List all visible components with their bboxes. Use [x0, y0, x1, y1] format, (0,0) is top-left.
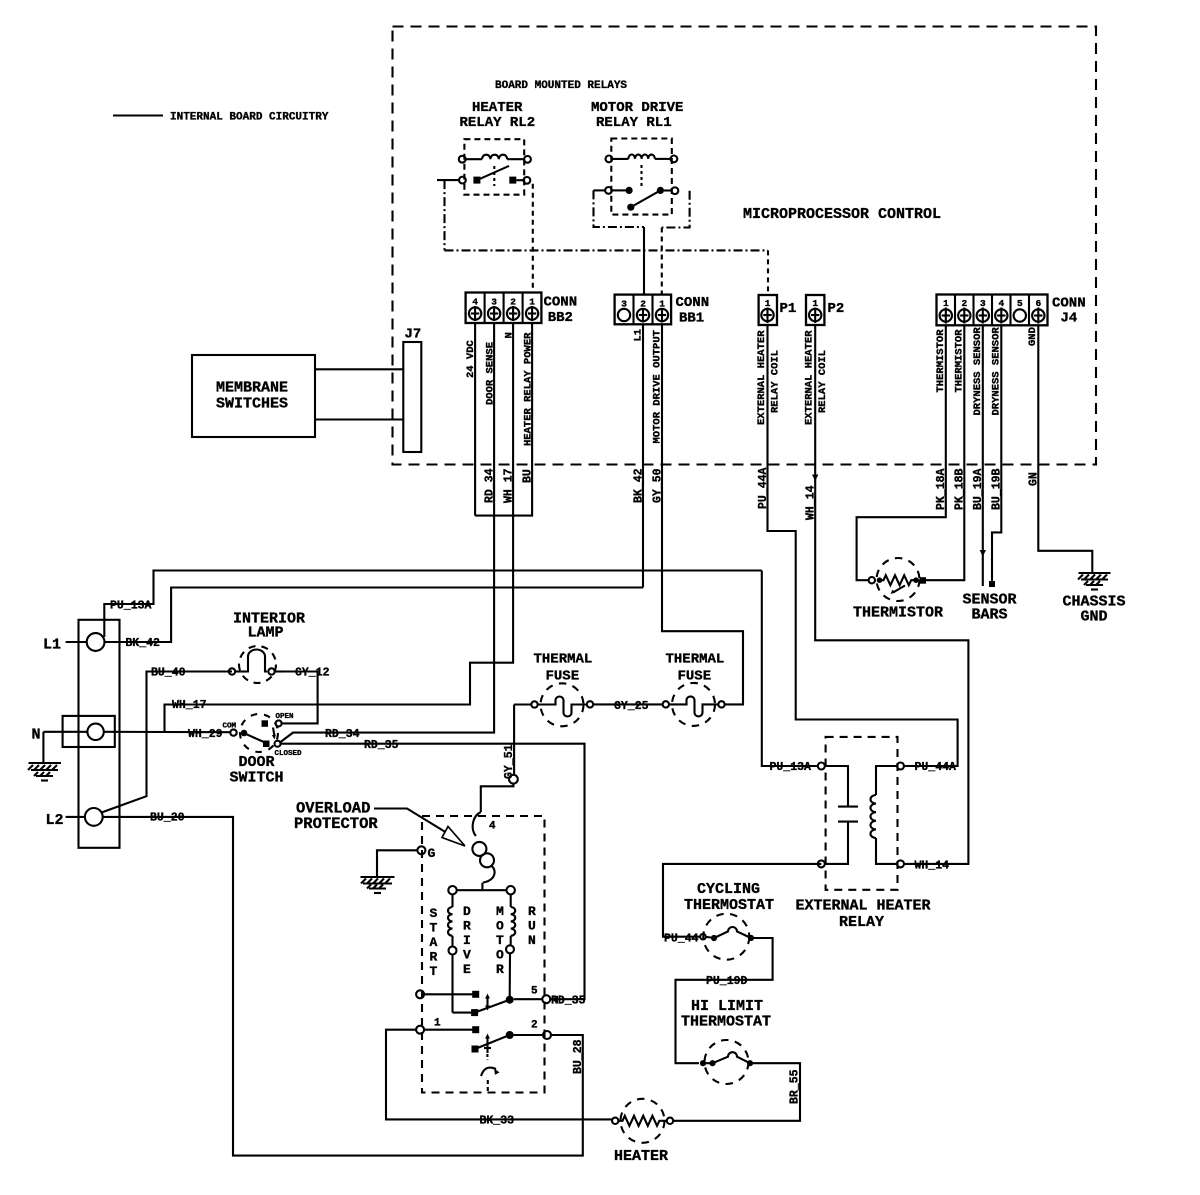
- svg-text:CLOSED: CLOSED: [275, 750, 303, 758]
- svg-text:5: 5: [1017, 298, 1023, 309]
- door switch OPEN contact: [262, 720, 269, 727]
- wire PU_13A vertical to relay: [762, 571, 818, 767]
- svg-text:DOOR: DOOR: [239, 754, 275, 771]
- wire N to door switch COM (WH_29): [104, 731, 230, 734]
- svg-text:PU_19D: PU_19D: [706, 975, 748, 988]
- hi limit thermostat: [700, 1040, 753, 1084]
- svg-text:A: A: [430, 935, 438, 950]
- svg-text:N: N: [32, 727, 41, 744]
- relay RL2: [437, 139, 531, 195]
- svg-text:PU_44A: PU_44A: [915, 761, 957, 774]
- svg-text:FUSE: FUSE: [546, 669, 580, 685]
- svg-text:BOARD MOUNTED RELAYS: BOARD MOUNTED RELAYS: [495, 80, 627, 92]
- svg-text:6: 6: [1036, 298, 1042, 309]
- svg-text:GY_25: GY_25: [614, 700, 649, 713]
- svg-text:BU_19B: BU_19B: [991, 468, 1004, 510]
- terminal L2: [46, 808, 103, 829]
- svg-text:1: 1: [765, 298, 771, 309]
- motor centrifugal switch pin 5: [416, 986, 550, 1017]
- svg-text:RELAY RL2: RELAY RL2: [460, 115, 536, 131]
- svg-text:GND: GND: [1027, 327, 1039, 346]
- svg-text:CONN: CONN: [544, 295, 578, 311]
- wire PU_19D cycling to hi-limit: [676, 938, 773, 1063]
- wire P1 to external heater relay PU_44A: [768, 325, 958, 766]
- svg-text:FUSE: FUSE: [678, 669, 712, 685]
- svg-text:WH_14: WH_14: [915, 860, 950, 873]
- wire 24VDC BB2 pin4 down: [474, 323, 476, 516]
- svg-text:1: 1: [529, 297, 535, 308]
- wire BK_42 from L1: [105, 588, 644, 643]
- wire membrane to J7 top: [315, 368, 403, 370]
- wire BU_20 from L2 to motor pin2: [103, 817, 583, 1156]
- heater: [612, 1099, 673, 1143]
- svg-text:SWITCH: SWITCH: [230, 770, 284, 787]
- svg-text:MICROPROCESSOR CONTROL: MICROPROCESSOR CONTROL: [743, 206, 941, 223]
- svg-text:PU_44: PU_44: [664, 933, 699, 946]
- overload protector label and pointer: [294, 800, 465, 847]
- svg-text:2: 2: [531, 1020, 538, 1032]
- overload protector device: [472, 775, 517, 890]
- svg-text:CONN: CONN: [676, 295, 710, 311]
- connector CONN J4: [937, 295, 1048, 326]
- svg-text:4: 4: [999, 298, 1005, 309]
- svg-text:PU_13A: PU_13A: [770, 761, 812, 774]
- svg-text:P1: P1: [780, 301, 797, 317]
- svg-text:BU_40: BU_40: [151, 667, 186, 680]
- svg-text:O: O: [496, 948, 504, 963]
- svg-text:BK_42: BK_42: [125, 637, 160, 650]
- svg-text:RD_35: RD_35: [364, 739, 399, 752]
- svg-text:G: G: [428, 846, 436, 861]
- svg-text:THERMAL: THERMAL: [666, 652, 725, 668]
- connector CONN BB2: [466, 293, 542, 324]
- external heater relay contact: [825, 766, 848, 807]
- wire BK_42 BB1 pin2 down: [642, 324, 644, 587]
- svg-text:U: U: [528, 919, 536, 934]
- svg-text:BK_33: BK_33: [480, 1115, 515, 1128]
- internal board dash-dot bus line: [445, 249, 769, 251]
- external heater relay coil: [876, 766, 897, 795]
- motor start winding: [448, 894, 472, 1012]
- wire BU_19A J4 pin3 sensor bar: [982, 325, 984, 586]
- svg-text:BB1: BB1: [679, 311, 704, 327]
- svg-text:BU_28: BU_28: [572, 1039, 585, 1074]
- svg-text:PK_18A: PK_18A: [935, 468, 948, 510]
- motor run winding: [506, 894, 515, 996]
- ground at motor G: [361, 850, 418, 893]
- thermistor: [869, 558, 926, 601]
- wire internal dashed to P1: [767, 250, 769, 295]
- svg-text:RELAY: RELAY: [839, 914, 884, 931]
- relay RL1: [594, 139, 679, 215]
- legend: internal board circuitry: [113, 112, 329, 124]
- wire GY_12 lamp to door switch open: [282, 672, 318, 724]
- svg-text:3: 3: [980, 298, 986, 309]
- svg-text:WH_17: WH_17: [503, 468, 516, 503]
- node G terminal: [417, 846, 425, 854]
- svg-text:RELAY COIL: RELAY COIL: [817, 350, 829, 413]
- wire WH_17 from CONN BB2 pin2: [165, 323, 514, 732]
- svg-text:CONN: CONN: [1052, 296, 1086, 312]
- svg-text:PROTECTOR: PROTECTOR: [294, 815, 378, 833]
- svg-text:I: I: [463, 933, 471, 948]
- svg-text:R: R: [463, 919, 471, 934]
- wire RL1 contact to CONN BB1 pin2 (solid internal): [643, 227, 645, 295]
- door switch: [223, 713, 303, 758]
- svg-text:RD_35: RD_35: [551, 995, 586, 1008]
- membrane switches box: [192, 355, 315, 437]
- svg-text:T: T: [430, 964, 438, 979]
- svg-text:N: N: [528, 933, 536, 948]
- wire GY_51 fuse to motor pin4: [513, 705, 515, 776]
- svg-text:HI LIMIT: HI LIMIT: [691, 998, 763, 1015]
- wire GY_25 between fuses: [593, 703, 662, 705]
- wire BK_33 motor pin1 to heater: [386, 1030, 612, 1120]
- motor centrifugal actuator arrow: [481, 1068, 500, 1092]
- svg-text:EXTERNAL HEATER: EXTERNAL HEATER: [804, 330, 816, 425]
- svg-text:S: S: [430, 906, 438, 921]
- relay RL1 coil: [606, 156, 613, 163]
- node RD_35 at motor: [551, 996, 559, 1003]
- microprocessor control dashed box: [393, 27, 1097, 465]
- thermal fuse 1: [514, 683, 593, 726]
- svg-text:RD_34: RD_34: [484, 468, 497, 503]
- svg-text:PU_13A: PU_13A: [110, 600, 152, 613]
- interior lamp: [229, 646, 283, 683]
- motor top bus: [448, 886, 515, 894]
- svg-text:1: 1: [812, 298, 818, 309]
- svg-text:5: 5: [531, 986, 538, 998]
- connector CONN BB1: [615, 295, 672, 325]
- svg-text:GN: GN: [1028, 472, 1041, 486]
- relay RL1 actuator dashed link: [640, 165, 642, 186]
- door switch actuator arrow: [273, 728, 274, 736]
- svg-text:RELAY COIL: RELAY COIL: [770, 350, 782, 413]
- svg-text:R: R: [430, 950, 438, 965]
- svg-text:WH_17: WH_17: [172, 699, 207, 712]
- svg-text:T: T: [430, 921, 438, 936]
- svg-text:THERMOSTAT: THERMOSTAT: [684, 897, 774, 914]
- svg-text:BB2: BB2: [548, 310, 573, 326]
- svg-text:EXTERNAL HEATER: EXTERNAL HEATER: [756, 330, 768, 425]
- cycling thermostat: [700, 914, 754, 960]
- svg-text:HEATER: HEATER: [614, 1148, 668, 1165]
- relay RL2 coil: [459, 156, 466, 163]
- motor dashed box: [422, 816, 545, 1093]
- svg-text:BR_55: BR_55: [789, 1069, 802, 1104]
- svg-text:THERMISTOR: THERMISTOR: [853, 605, 943, 622]
- svg-text:J4: J4: [1061, 311, 1078, 327]
- wire GN J4 pin6 to chassis ground: [1038, 325, 1092, 573]
- svg-text:R: R: [528, 904, 536, 919]
- svg-text:LAMP: LAMP: [248, 625, 284, 642]
- svg-text:COM: COM: [223, 722, 237, 730]
- connector P2: [806, 295, 824, 325]
- svg-text:T: T: [496, 933, 504, 948]
- svg-text:3: 3: [491, 297, 497, 308]
- wire BU_19B J4 pin4 sensor bar: [992, 325, 1001, 582]
- svg-text:EXTERNAL HEATER: EXTERNAL HEATER: [796, 898, 931, 915]
- wire BU_40 from L2 to lamp: [102, 672, 233, 813]
- svg-text:GND: GND: [1081, 609, 1108, 626]
- relay RL1 outer dash-dot boundary: [594, 190, 645, 227]
- svg-text:RELAY RL1: RELAY RL1: [596, 115, 672, 131]
- wire PK_18A J4 pin1 to thermistor: [857, 325, 946, 580]
- svg-text:P2: P2: [828, 301, 845, 317]
- relay RL2 contact: [437, 179, 459, 181]
- wire PK_18B J4 pin2 to thermistor: [926, 325, 964, 580]
- svg-text:MOTOR DRIVE: MOTOR DRIVE: [591, 100, 683, 116]
- relay RL1 contact: [594, 189, 606, 191]
- wire RL2 contact to CONN BB2 pin1 (dashed internal): [532, 184, 534, 293]
- svg-text:M: M: [496, 904, 504, 919]
- svg-text:CYCLING: CYCLING: [697, 881, 760, 898]
- thermal fuse 2: [663, 683, 725, 726]
- terminal block: [79, 620, 120, 848]
- terminal L1: [43, 633, 105, 653]
- svg-text:HEATER: HEATER: [472, 100, 523, 116]
- svg-text:E: E: [463, 962, 471, 977]
- svg-text:4: 4: [472, 297, 478, 308]
- relay RL2 outer dash-dot boundary: [443, 180, 445, 250]
- svg-text:BU_19A: BU_19A: [972, 468, 985, 510]
- svg-text:J7: J7: [405, 327, 422, 343]
- svg-text:PK_18B: PK_18B: [954, 468, 967, 510]
- wire RD_34 door switch to BB2 pin3: [281, 323, 495, 742]
- wire HEATER RELAY POWER BB2 pin1 down: [475, 323, 532, 516]
- wire BR_55 hi-limit to heater: [673, 1063, 800, 1121]
- svg-text:INTERNAL BOARD CIRCUITRY: INTERNAL BOARD CIRCUITRY: [170, 112, 329, 124]
- ground at N: [28, 732, 61, 781]
- svg-text:D: D: [463, 904, 471, 919]
- wire relay to cycling thermostat PU_44: [663, 864, 821, 937]
- svg-text:L2: L2: [46, 812, 64, 829]
- wire P2 to external heater relay WH_14: [815, 325, 968, 864]
- svg-text:MEMBRANE: MEMBRANE: [216, 380, 288, 397]
- wire RD_35 door switch to motor pin5: [281, 744, 585, 1000]
- svg-text:WH_29: WH_29: [188, 728, 223, 741]
- chassis ground symbol: [1078, 573, 1111, 590]
- svg-text:O: O: [496, 919, 504, 934]
- terminal N: [32, 716, 115, 747]
- svg-text:L1: L1: [43, 637, 61, 654]
- door switch CLOSED contact: [263, 741, 270, 748]
- wire PU_13A from L1: [104, 571, 762, 638]
- svg-text:V: V: [463, 948, 471, 963]
- svg-text:SWITCHES: SWITCHES: [216, 396, 288, 413]
- svg-text:OPEN: OPEN: [276, 713, 294, 721]
- svg-text:4: 4: [489, 821, 496, 833]
- svg-text:1: 1: [434, 1018, 441, 1030]
- wire GY_50 BB1 pin1 to fuse 2: [662, 324, 743, 704]
- svg-text:2: 2: [962, 298, 968, 309]
- wire RL1 coil to CONN BB1 pin1 (dashed internal): [661, 228, 663, 295]
- svg-text:GY_12: GY_12: [295, 667, 330, 680]
- svg-text:R: R: [496, 962, 504, 977]
- svg-text:THERMAL: THERMAL: [534, 652, 593, 668]
- svg-text:THERMOSTAT: THERMOSTAT: [681, 1014, 771, 1031]
- connector P1: [759, 295, 777, 325]
- svg-text:RD_34: RD_34: [325, 728, 360, 741]
- svg-text:1: 1: [943, 298, 949, 309]
- wire membrane to J7 bottom: [315, 418, 403, 420]
- svg-text:2: 2: [510, 297, 516, 308]
- connector J7: [403, 342, 421, 452]
- svg-text:BU_20: BU_20: [150, 812, 185, 825]
- motor centrifugal switch pin 1-2: [416, 1018, 551, 1061]
- svg-text:BARS: BARS: [972, 607, 1008, 624]
- relay RL2 actuator dashed link: [493, 166, 495, 186]
- external heater relay: [818, 737, 904, 890]
